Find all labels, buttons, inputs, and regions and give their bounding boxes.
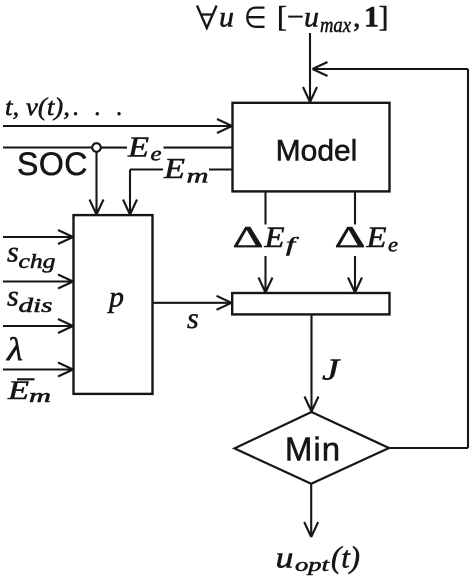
svg-text:1: 1 (364, 1, 379, 34)
svg-text:m: m (29, 386, 51, 407)
svg-text:m: m (187, 164, 209, 188)
wire: Delta Ee vertical lower arrow (354, 256, 356, 292)
wire: input arrow 2 into p (3, 280, 73, 282)
svg-text:e: e (151, 142, 162, 166)
block: p box (74, 215, 153, 394)
svg-text:,: , (353, 1, 361, 34)
svg-text:s: s (187, 302, 199, 335)
svg-text:u: u (276, 540, 294, 575)
node: SOC branch circle (92, 143, 101, 152)
svg-text:E: E (365, 221, 386, 254)
svg-text:E: E (127, 132, 150, 164)
label: bar over E (17, 378, 35, 380)
wire: u input vertical into Model (309, 33, 311, 102)
wire: Delta Ef vertical upper (264, 192, 266, 225)
svg-text:(t): (t) (331, 540, 360, 575)
svg-text:u: u (219, 1, 234, 34)
wire: s arrow from p to sum box (153, 302, 231, 304)
wire: Delta Ee vertical upper (354, 192, 356, 225)
svg-text:Model: Model (276, 135, 358, 168)
wire: Delta Ef vertical lower arrow (264, 256, 266, 292)
svg-text:t, v(t),: t, v(t), (5, 94, 70, 121)
wire: Em line Model to corner (130, 168, 163, 170)
label: forall symbol (197, 6, 217, 29)
svg-text:E: E (163, 153, 186, 185)
svg-text:Min: Min (285, 431, 341, 468)
wire: feedback top horizontal with left arrowhead (313, 68, 469, 70)
wire: J vertical from sum box to Min (310, 314, 312, 411)
svg-text:λ: λ (6, 332, 23, 368)
block: Min diamond (235, 412, 390, 484)
wire: input arrow 3 into p (3, 325, 73, 327)
svg-text:f: f (286, 234, 299, 256)
svg-text:]: ] (379, 1, 389, 34)
wire: t,v(t) arrow into Model (3, 125, 232, 127)
wire: SOC vertical down into p (95, 151, 97, 214)
svg-text:u: u (304, 1, 319, 34)
svg-text:J: J (322, 352, 341, 387)
svg-text:max: max (320, 12, 351, 37)
svg-text:...: ... (73, 94, 138, 121)
label: element-of symbol (247, 8, 264, 27)
svg-text:p: p (107, 281, 124, 314)
block: Model box (233, 103, 390, 192)
wire: Ee line circle to Model (101, 147, 127, 149)
svg-text:dis: dis (19, 296, 53, 317)
svg-text:s: s (7, 280, 19, 313)
svg-text:s: s (7, 236, 19, 269)
svg-text:E: E (263, 221, 284, 254)
wire: SOC horizontal line (3, 146, 92, 148)
svg-text:[−: [− (277, 1, 304, 34)
wire: input arrow 4 into p (3, 368, 73, 370)
wire: Em vertical down into p (129, 170, 131, 215)
svg-text:chg: chg (19, 252, 56, 273)
svg-text:opt: opt (295, 555, 330, 576)
svg-text:SOC: SOC (17, 146, 88, 182)
svg-text:Δ: Δ (233, 219, 264, 254)
wire: input arrow 1 into p (3, 236, 73, 238)
block: sum thin box (232, 293, 389, 314)
wire: output arrow from Min (310, 484, 312, 537)
svg-text:E: E (7, 376, 29, 405)
wire: feedback right vertical (467, 69, 469, 448)
wire: feedback bottom horizontal from Min right vertex (389, 447, 468, 449)
svg-text:e: e (388, 233, 398, 257)
svg-text:Δ: Δ (335, 219, 366, 254)
